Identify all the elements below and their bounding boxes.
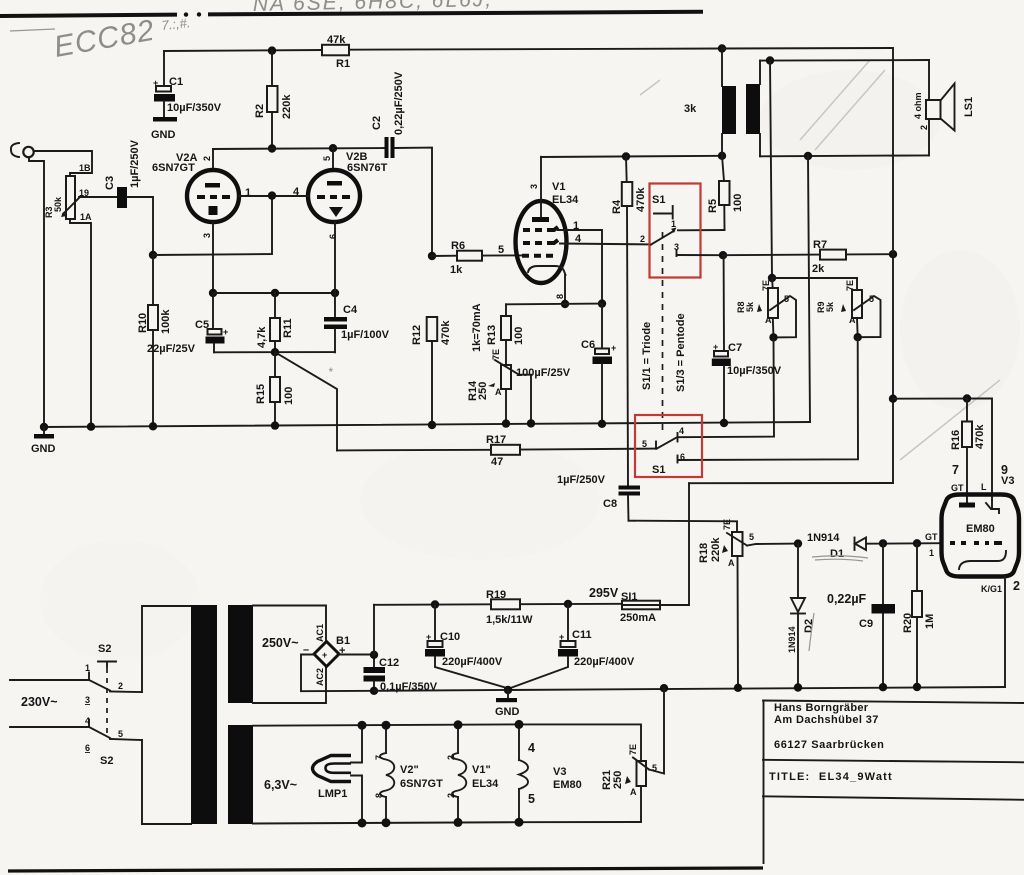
svg-text:8: 8 (374, 793, 384, 798)
svg-text:+: + (611, 343, 616, 353)
triode V2B (308, 151, 388, 239)
node B+ branch EM80 (889, 395, 897, 403)
resistor R16 470k (950, 399, 986, 505)
capacitor C1 (153, 51, 222, 117)
node R8 bottom (769, 333, 777, 341)
svg-text:470k: 470k (974, 424, 986, 449)
wire speaker bottom to ground bus (808, 156, 810, 422)
svg-text:V1: V1 (552, 181, 565, 193)
wire R5 to S1 contact1 (678, 229, 725, 231)
svg-text:1A: 1A (80, 212, 92, 222)
svg-text:EL34: EL34 (552, 194, 579, 206)
node 0V D2 (794, 683, 802, 691)
svg-text:1µF/250V: 1µF/250V (557, 474, 606, 486)
svg-text:295V: 295V (589, 586, 619, 600)
svg-text:7E: 7E (491, 349, 501, 360)
wire R8 top to R9 top (772, 277, 857, 279)
node R20 branch (913, 539, 921, 547)
svg-text:5: 5 (749, 532, 754, 542)
fuse SI1 (589, 586, 689, 624)
svg-text:4,7k: 4,7k (256, 326, 268, 348)
svg-text:TITLE: EL34_9Watt: TITLE: EL34_9Watt (769, 771, 893, 783)
B+ right rail (722, 48, 893, 483)
svg-text:V2": V2" (400, 764, 419, 776)
svg-text:+: + (426, 632, 431, 642)
svg-text:C12: C12 (379, 657, 399, 669)
svg-text:R11: R11 (282, 318, 294, 338)
capacitor C6 (516, 304, 616, 424)
heater rail bottom (253, 822, 519, 823)
wire R8 bottom to S1 contact4 (678, 337, 774, 437)
node R2 bottom / plate wire (268, 144, 276, 152)
node ground R10 (149, 422, 157, 430)
node heater V2 bottom (382, 818, 391, 827)
switch S1 upper red frame (650, 184, 701, 278)
svg-text:3k: 3k (684, 103, 697, 115)
capacitor C3 (104, 139, 141, 208)
svg-text:1µF/100V: 1µF/100V (341, 329, 390, 341)
node R7 B+ (889, 250, 897, 258)
svg-text:A: A (728, 558, 735, 568)
svg-text:C9: C9 (859, 618, 873, 630)
node cathode pin8 (561, 300, 569, 308)
wire B1 minus to 0V (301, 655, 374, 692)
node screen (719, 251, 727, 259)
page bottom border (8, 868, 763, 871)
svg-text:S1: S1 (652, 194, 665, 206)
wire jack tip to R3 top (34, 151, 92, 176)
svg-text:1N914: 1N914 (787, 626, 797, 653)
svg-text:250: 250 (612, 771, 624, 789)
svg-text:6SN7GT: 6SN7GT (400, 778, 443, 790)
secondary top wire to speaker (760, 59, 929, 62)
node R16 top (963, 394, 971, 402)
svg-text:+: + (223, 327, 228, 337)
svg-text:6: 6 (680, 452, 685, 462)
svg-text:GND: GND (31, 443, 56, 455)
svg-text:5: 5 (869, 294, 874, 304)
pencil scribble under D1 (812, 556, 868, 561)
svg-text:22µF/25V: 22µF/25V (147, 343, 196, 355)
node C9 branch (879, 539, 887, 547)
feedback wire to R8 (770, 61, 772, 279)
svg-text:100µF/25V: 100µF/25V (516, 367, 571, 379)
svg-text:Hans Borngräber: Hans Borngräber (774, 702, 869, 714)
input jack J1 (11, 143, 34, 157)
svg-text:4: 4 (528, 741, 535, 755)
svg-text:S1: S1 (652, 464, 665, 476)
svg-text:C10: C10 (440, 631, 460, 643)
svg-text:4: 4 (575, 233, 582, 245)
svg-text:250: 250 (477, 382, 489, 400)
power transformer secondary 6,3V (228, 725, 253, 824)
svg-text:2k: 2k (812, 263, 825, 275)
trimmer R21 250 (601, 744, 657, 797)
node 0V R18 (734, 684, 742, 692)
wire V2B top riser (332, 148, 334, 171)
node C10 top (431, 600, 439, 608)
svg-text:1k: 1k (450, 264, 463, 276)
resistor R11 4,7k (256, 293, 294, 352)
svg-text:S2: S2 (100, 755, 113, 767)
svg-text:R4: R4 (611, 199, 623, 214)
svg-text:6SN7GT: 6SN7GT (152, 162, 195, 174)
title block frame (763, 701, 1024, 864)
svg-text:S1/1 = Triode: S1/1 = Triode (641, 322, 653, 390)
wire cathode to R13 (506, 303, 602, 306)
node C6 ground (598, 420, 606, 428)
wire cathode bottom bus (214, 351, 335, 353)
svg-text:3: 3 (529, 184, 539, 189)
svg-text:A: A (849, 315, 856, 325)
svg-text:V1": V1" (472, 764, 491, 776)
svg-text:R10: R10 (137, 313, 149, 333)
switch S1 lower red frame (635, 415, 702, 477)
wire R14 wiper to ground (519, 375, 531, 424)
node B+ top (718, 44, 726, 52)
svg-text:C1: C1 (169, 76, 183, 88)
ground symbol 0V (495, 690, 520, 718)
svg-text:R17: R17 (486, 434, 506, 446)
heater V3 EM80 box (519, 724, 641, 822)
svg-text:7.:,#.: 7.:,#. (161, 15, 191, 33)
svg-text:1: 1 (929, 548, 934, 558)
svg-text:470k: 470k (440, 320, 452, 345)
svg-text:+: + (322, 650, 327, 660)
svg-text:R15: R15 (255, 384, 267, 404)
node C11 top (564, 600, 572, 608)
svg-text:EM80: EM80 (553, 779, 582, 791)
svg-text:4: 4 (85, 716, 90, 726)
cathode wire to R11/C4 (213, 292, 335, 294)
power transformer secondary 250V (228, 605, 326, 703)
svg-text:100: 100 (513, 327, 525, 345)
svg-text:R20: R20 (902, 613, 914, 633)
resistor R10 100k (137, 255, 172, 426)
svg-text:GND: GND (151, 129, 176, 141)
svg-text:V3: V3 (553, 766, 566, 778)
svg-text:4 ohm: 4 ohm (913, 92, 923, 119)
resistor R15 100 (255, 352, 295, 425)
svg-text:R16: R16 (950, 430, 962, 450)
node 0V R20 (913, 683, 921, 691)
svg-text:2: 2 (640, 234, 645, 244)
node R11 bottom (271, 348, 279, 356)
svg-text:8: 8 (555, 294, 565, 299)
svg-text:6,3V~: 6,3V~ (264, 778, 297, 792)
heater V1 EL34 (446, 725, 499, 823)
resistor R19 1,5k/11W (374, 589, 622, 626)
svg-text:+: + (559, 632, 564, 642)
svg-text:R18: R18 (698, 543, 710, 563)
wire R21 wiper to 0V (649, 688, 664, 773)
svg-text:3: 3 (85, 695, 90, 705)
svg-text:220µF/400V: 220µF/400V (574, 656, 635, 668)
node primary bottom (718, 152, 726, 160)
svg-text:470k: 470k (635, 187, 647, 212)
output transformer primary (684, 49, 736, 156)
capacitor C4 (324, 293, 390, 352)
svg-text:220k: 220k (710, 537, 722, 562)
svg-text:D1: D1 (830, 548, 844, 560)
capacitor C2 (371, 71, 405, 158)
node g3/cathode (598, 299, 606, 307)
wire 295V B+ feed (689, 482, 893, 484)
node B1 plus (370, 651, 378, 659)
svg-text:AC2: AC2 (315, 668, 325, 686)
svg-text:C11: C11 (572, 629, 592, 641)
node heater V2 top (382, 721, 391, 730)
wire C2 to R12/R6 node (395, 148, 433, 256)
node 0V R21 (660, 684, 668, 692)
node ground R15 (271, 421, 279, 429)
svg-text:1,5k/11W: 1,5k/11W (486, 614, 533, 626)
svg-text:2: 2 (1013, 579, 1020, 593)
node R4 top (622, 152, 630, 160)
svg-text:R2: R2 (254, 104, 266, 118)
pentode V1 EL34 (516, 157, 580, 283)
svg-text:A: A (630, 787, 637, 797)
resistor R6 1k (432, 240, 523, 276)
node R14 wiper ground (527, 419, 535, 427)
svg-text:6: 6 (328, 234, 338, 239)
svg-text:1M: 1M (924, 614, 936, 629)
grid wire V2A pin1 to V2B pin4 (239, 195, 309, 197)
svg-text:5: 5 (528, 792, 535, 806)
svg-text:66127 Saarbrücken: 66127 Saarbrücken (774, 739, 885, 751)
svg-text:50k: 50k (53, 196, 63, 212)
svg-text:C4: C4 (343, 304, 358, 316)
svg-text:A: A (495, 387, 502, 397)
wire V2A plate to C2 (213, 148, 385, 149)
svg-text:1k=70mA: 1k=70mA (471, 303, 483, 352)
node V3 box bottom (515, 818, 524, 827)
resistor R4 470k (611, 157, 647, 487)
svg-text:5: 5 (784, 294, 789, 304)
mains switch S2 (10, 643, 142, 767)
svg-text:1µF/250V: 1µF/250V (129, 139, 141, 188)
wire R9 bottom to S1 contact6 (678, 337, 858, 460)
svg-text:EM80: EM80 (966, 523, 995, 535)
svg-text:K/G1: K/G1 (981, 584, 1002, 594)
svg-text:R13: R13 (486, 325, 498, 345)
B+ top wire (164, 50, 322, 51)
svg-text:S2: S2 (98, 643, 111, 655)
svg-text:R19: R19 (486, 589, 506, 601)
resistor R5 100 (707, 156, 744, 230)
wire fuse riser (688, 483, 690, 605)
svg-text:7: 7 (952, 463, 959, 477)
node R9 bottom (854, 333, 862, 341)
svg-text:AC1: AC1 (315, 624, 325, 642)
node 0V GND (504, 686, 512, 694)
capacitor C10 (425, 605, 508, 689)
speaker LS1 (913, 60, 975, 155)
plate wire y156 (541, 156, 722, 157)
wire B1 plus up to R19 rail (373, 605, 375, 655)
secondary bottom wire (760, 154, 929, 157)
svg-text:EL34: EL34 (472, 778, 499, 790)
svg-text:1B: 1B (79, 163, 91, 173)
node 0V C9 (879, 683, 887, 691)
node R6 left (428, 252, 436, 260)
node C3/R10 (149, 251, 157, 259)
svg-text:47: 47 (491, 456, 503, 468)
node C7 ground (720, 419, 728, 427)
resistor R17 47 (486, 434, 656, 468)
node heater V1 top (454, 720, 463, 729)
heater rail top (253, 724, 519, 725)
wire jack sleeve to ground (29, 157, 44, 427)
svg-text:5: 5 (118, 729, 123, 739)
svg-text:5: 5 (642, 439, 647, 449)
svg-text:C3: C3 (104, 176, 116, 190)
node R2 top (268, 46, 276, 54)
trimmer R14 250 (467, 349, 519, 424)
svg-text:+: + (713, 342, 718, 352)
svg-text:250mA: 250mA (620, 612, 656, 624)
svg-text:3: 3 (202, 233, 212, 238)
capacitor C9 (827, 543, 895, 687)
svg-text:ECC82: ECC82 (51, 14, 157, 64)
wire C8 to R18 (629, 521, 738, 532)
resistor R20 1M (902, 543, 936, 687)
svg-text:C2: C2 (371, 116, 383, 130)
ground symbol left (31, 427, 56, 455)
magic eye tube V3 EM80 (942, 495, 1020, 577)
node ground R3 (87, 423, 95, 431)
wire B1 plus to C12 (339, 655, 374, 668)
wire R18 wiper to D1 (747, 544, 798, 546)
svg-text:100: 100 (732, 194, 744, 212)
wire V2A plate riser (212, 149, 214, 171)
svg-text:100k: 100k (160, 309, 172, 334)
node R11 top (271, 289, 279, 297)
ground symbol at C1 (151, 117, 177, 141)
svg-text:7E: 7E (722, 519, 732, 530)
resistor R13 100 (471, 303, 525, 365)
potentiometer R8 5k (736, 278, 796, 337)
node heater V1 bottom (454, 818, 463, 827)
svg-text:7E: 7E (628, 744, 638, 755)
pencil streaks texture (640, 60, 1000, 460)
svg-text:C7: C7 (728, 342, 742, 354)
svg-text:1: 1 (573, 220, 579, 232)
svg-text:5k: 5k (745, 301, 755, 312)
node V3 box top (515, 720, 524, 729)
svg-text:100: 100 (283, 387, 295, 405)
node V2B pin5 (329, 144, 337, 152)
svg-text:C5: C5 (195, 319, 209, 331)
svg-text:C8: C8 (603, 498, 617, 510)
svg-text:A: A (765, 315, 772, 325)
svg-text:230V~: 230V~ (21, 695, 58, 709)
svg-text:2: 2 (118, 681, 123, 691)
svg-text:5: 5 (322, 156, 332, 161)
node lamp top (358, 721, 367, 730)
wire R17 from diagonal (337, 449, 491, 452)
svg-text:R12: R12 (411, 325, 423, 345)
pencil mark near D2 (809, 613, 814, 651)
svg-text:2: 2 (446, 793, 456, 798)
svg-text:4: 4 (679, 426, 684, 436)
wire R3 wiper to C3 (79, 196, 117, 198)
heater V2 6SN7GT (374, 725, 443, 823)
svg-text:2: 2 (202, 156, 212, 161)
svg-text:4: 4 (293, 186, 300, 198)
0V rail (374, 687, 1005, 691)
svg-text:R6: R6 (451, 240, 465, 252)
capacitor C12 (364, 657, 438, 693)
svg-text:R1: R1 (336, 58, 350, 70)
capacitor C11 (510, 604, 635, 688)
svg-text:S1/3 = Pentode: S1/3 = Pentode (675, 313, 687, 392)
svg-text:1N914: 1N914 (807, 532, 840, 544)
node feedback tap (766, 56, 774, 64)
wire R3 bottom to ground bus (70, 219, 91, 426)
svg-text:R7: R7 (813, 239, 827, 251)
potentiometer R9 5k (816, 278, 881, 337)
node ground R12 (428, 421, 436, 429)
node R14 bottom ground (502, 419, 510, 427)
svg-text:3: 3 (674, 242, 679, 252)
capacitor C7 (712, 255, 782, 423)
svg-text:1: 1 (245, 187, 251, 199)
potentiometer R3 50k (44, 176, 79, 219)
svg-text:SI1: SI1 (621, 591, 638, 603)
svg-text:2: 2 (919, 125, 929, 130)
svg-text:L: L (981, 482, 987, 492)
svg-text:1: 1 (671, 219, 676, 229)
switch S1 lower (642, 426, 685, 476)
page top border (0, 12, 703, 17)
svg-text:220k: 220k (281, 94, 293, 119)
svg-text:GT: GT (951, 483, 964, 493)
svg-text:5k: 5k (825, 301, 835, 312)
wire V1 g3 pin1 (558, 230, 602, 304)
svg-text:LS1: LS1 (963, 97, 975, 117)
svg-text:7E: 7E (761, 280, 771, 291)
svg-text:250V~: 250V~ (262, 636, 299, 650)
power transformer primary box (142, 605, 217, 824)
node speaker bottom ground (804, 152, 812, 160)
node V2A cathode (209, 289, 217, 297)
wire V2A cathode riser (212, 222, 214, 293)
pencil mark top left (10, 29, 55, 31)
svg-text:2: 2 (446, 755, 456, 760)
svg-text:0,22µF: 0,22µF (827, 592, 867, 606)
svg-text:*: * (328, 365, 333, 379)
paper smudges (40, 70, 1020, 660)
wire B+ to R16/pin9 (893, 398, 992, 500)
svg-text:10µF/350V: 10µF/350V (167, 102, 222, 114)
wire V1 g2 pin4 to S1 (560, 243, 651, 246)
svg-text:7E: 7E (845, 280, 855, 291)
svg-text:5: 5 (498, 244, 504, 256)
capacitor C8 (557, 474, 640, 521)
svg-text:V3: V3 (1001, 475, 1014, 487)
wire C3 to node, down to R10 (127, 197, 153, 255)
triode V2A (152, 152, 239, 238)
resistor R7 2k (723, 239, 893, 275)
lamp LMP1 (313, 725, 363, 823)
svg-text:220µF/400V: 220µF/400V (442, 656, 503, 668)
ground bus left (44, 422, 810, 427)
node V2B cathode (331, 289, 339, 297)
node lamp bottom (358, 819, 367, 828)
node ground jack (40, 423, 48, 431)
output transformer secondary (746, 61, 760, 157)
